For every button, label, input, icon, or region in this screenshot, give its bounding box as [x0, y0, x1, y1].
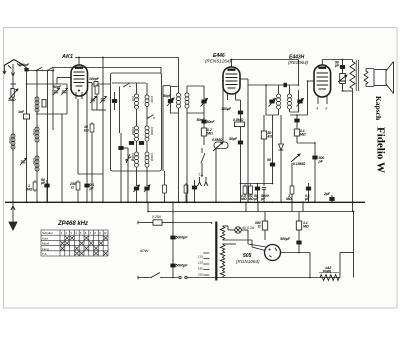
svg-text:MΩ: MΩ: [241, 197, 247, 201]
svg-text:MΩ: MΩ: [248, 197, 254, 201]
anode RC: var resistor box 50k: [342, 69, 344, 74]
svg-text:0.5MΩ: 0.5MΩ: [233, 118, 244, 122]
svg-text:MΩ: MΩ: [303, 225, 309, 229]
coil on x37 top: [35, 97, 39, 112]
wire y=85 to IF2: [248, 84, 266, 86]
vertical x=78 mid: [77, 99, 79, 174]
OT core: [355, 60, 357, 91]
wire y=114: [37, 113, 67, 115]
svg-text:0.0032: 0.0032: [150, 127, 154, 135]
svg-text:MΩ: MΩ: [207, 132, 213, 136]
IF2 left bracket: [266, 85, 279, 115]
series cap black on x26.5: [24, 68, 28, 72]
volume pot 0.5M: [214, 142, 228, 149]
coil column x=136.5 upper: [136, 83, 138, 94]
svg-text:5000pF: 5000pF: [176, 236, 189, 240]
box inner top wire: [112, 82, 146, 84]
svg-text:0.010: 0.010: [32, 129, 36, 136]
E446 grid wire left down to pot: [222, 81, 224, 143]
svg-text:0.25A: 0.25A: [152, 215, 162, 219]
E446 top cap lead: [231, 60, 233, 68]
svg-text:T.A.: T.A.: [42, 252, 47, 256]
resistor on x=97: [95, 84, 99, 96]
step wire 78->103: [78, 173, 103, 175]
svg-text:Kurz: Kurz: [42, 236, 49, 240]
speaker cone: [386, 62, 394, 94]
svg-text:0.0032: 0.0032: [150, 153, 154, 161]
IF2 right trimmer: [298, 100, 302, 103]
TA terminals: [198, 177, 209, 186]
vertical x=47.5 switch pole: [47, 71, 49, 203]
trimmer on x26.5: [20, 158, 27, 165]
tone var resistor: [291, 154, 300, 162]
IF1 right trimmer: [202, 100, 206, 103]
resistor 0.5M horizontal: [235, 122, 245, 127]
svg-text:AK1: AK1: [61, 54, 73, 60]
svg-text:60W: 60W: [140, 248, 149, 253]
resistor x=186 at 185: [184, 183, 188, 195]
svg-text:100µF: 100µF: [221, 107, 232, 111]
speaker box: [374, 70, 386, 86]
antenna input arrow on x=13: [11, 72, 14, 76]
svg-text:1nF: 1nF: [18, 110, 25, 114]
feed vertical x=173: [172, 202, 174, 277]
primary taps: [203, 253, 209, 275]
coil column x=147 upper: [146, 83, 148, 95]
bus B to IF2: [232, 59, 299, 61]
svg-text:MΩ: MΩ: [300, 133, 306, 137]
svg-text:MΩ: MΩ: [286, 197, 292, 201]
coil column x=136.5 low: [135, 152, 139, 167]
ground symbol: [12, 202, 14, 222]
bottom line with switch: [138, 276, 142, 279]
coil on x37 upper: [35, 127, 39, 142]
output transformer primary zigzag: [350, 60, 355, 91]
coil on x37 lower: [35, 156, 39, 171]
svg-text:220: 220: [198, 273, 203, 277]
svg-text:0.0008: 0.0008: [131, 153, 135, 161]
field coil drop: [352, 91, 354, 212]
IF2 top wire with cap: [266, 84, 299, 86]
IF1 right bracket: [187, 86, 204, 113]
svg-text:MΩ: MΩ: [27, 188, 33, 192]
tube AK1 envelope: [71, 65, 88, 96]
vertical x=67: [66, 84, 68, 114]
vertical x=37: [36, 71, 38, 203]
heater resistor zigzag: [320, 275, 339, 281]
trimmer pair at 93,99: [90, 96, 97, 103]
resistor 350: [264, 212, 266, 222]
svg-text:(RENS1264): (RENS1264): [205, 59, 232, 64]
heater return: [223, 239, 253, 241]
svg-text:4V 0.2A: 4V 0.2A: [242, 226, 255, 230]
coil column x=147 mid: [145, 126, 149, 141]
vertical x=103: [102, 58, 104, 175]
x353 down: [353, 212, 355, 278]
IF2 left trimmer: [270, 100, 274, 103]
cap 5000 below IF1 right: [203, 113, 205, 120]
resistor right: [298, 212, 300, 222]
vertical x=86: [86, 92, 88, 178]
wire y=84 from 26.5 to 67: [27, 83, 68, 85]
TA switch chain: [201, 148, 203, 153]
wire x=26.5 column: [26, 72, 28, 203]
cap 5000 upper: [171, 236, 175, 239]
transformer core bar: [215, 222, 217, 281]
svg-text:50nF: 50nF: [207, 120, 216, 124]
svg-text:(RES964): (RES964): [288, 60, 309, 65]
svg-text:125: 125: [198, 261, 203, 265]
anode wire: [240, 78, 248, 80]
antenna: [4, 60, 24, 66]
svg-text:T.A.: T.A.: [198, 173, 204, 177]
vertical x=53: [52, 71, 54, 131]
secondary HV winding: [220, 244, 224, 277]
cap 5000 lower: [171, 264, 175, 267]
bus drops 202->211: [147, 202, 149, 211]
svg-text:pF: pF: [318, 160, 324, 164]
svg-text:k: k: [326, 107, 328, 111]
mains plug prongs: [138, 221, 142, 224]
pilot lamp: [235, 227, 241, 233]
anode RC: cap: [342, 60, 344, 66]
svg-text:kΩ: kΩ: [84, 129, 89, 133]
svg-text:µF: µF: [253, 197, 259, 201]
pot left leg down: [215, 149, 217, 203]
IF2 left winding: [278, 85, 280, 94]
cap 100uF black: [238, 111, 242, 114]
switch in box top: [123, 83, 130, 87]
switch low box: [125, 157, 132, 161]
svg-text:Mittel: Mittel: [42, 242, 50, 246]
E443H internals: [318, 67, 326, 69]
svg-text:0.030: 0.030: [8, 137, 12, 144]
svg-text:50nF: 50nF: [197, 118, 206, 122]
vertical x=128 below box: [127, 148, 129, 202]
E443H top cap lead: [321, 60, 323, 66]
grid lead: [308, 80, 314, 82]
svg-text:Fidelio W: Fidelio W: [375, 127, 387, 173]
wire from AK1 to grid circuit: [57, 77, 71, 79]
vertical x=119.5: [119, 87, 121, 134]
fuse 0.25A: [142, 222, 153, 224]
AK1 internals: [75, 67, 83, 69]
black cap x=87: [85, 184, 89, 187]
svg-text:50: 50: [267, 158, 271, 162]
svg-text:2µF: 2µF: [323, 192, 331, 196]
svg-text:Ω: Ω: [257, 225, 261, 229]
AK1 top cap lead: [78, 58, 80, 66]
svg-text:500pF: 500pF: [19, 63, 30, 67]
IF1 left trimmer: [168, 100, 172, 103]
svg-text:0.15MΩ: 0.15MΩ: [293, 162, 305, 166]
svg-text:pF: pF: [260, 197, 266, 201]
output filter loop: [309, 253, 311, 278]
svg-text:µF: µF: [89, 187, 95, 191]
svg-text:110: 110: [198, 255, 203, 259]
coil on x13: [11, 134, 15, 149]
svg-text:150: 150: [198, 267, 203, 271]
resistor 0.2M below: [203, 123, 205, 128]
svg-text:(RGN1064): (RGN1064): [236, 259, 260, 264]
rectifier 505: [247, 230, 249, 244]
switch at 127,158: [126, 154, 130, 163]
wire top feed y=67.5: [53, 67, 161, 69]
resistor x=164 at 185: [163, 183, 167, 195]
tube E446 envelope: [223, 67, 240, 94]
black cap at 121,148 wire right: [119, 147, 123, 150]
IF1 right winding: [186, 86, 188, 93]
svg-text:FWB: FWB: [323, 270, 331, 274]
svg-text:50µF: 50µF: [229, 137, 238, 141]
coil column x=136.5 mid: [135, 126, 139, 141]
svg-text:0.002: 0.002: [32, 158, 36, 165]
trimmer caps under box: [134, 187, 138, 190]
switch mid box: [147, 115, 154, 119]
detector branch: [280, 115, 282, 144]
grid RC chain: [290, 114, 308, 116]
wire y=110: [92, 109, 106, 111]
wire y=84 right of tube: [88, 82, 93, 84]
svg-text:µF: µF: [334, 64, 340, 68]
top bus corner into IF1: [178, 58, 180, 94]
svg-text:µF: µF: [304, 197, 310, 201]
svg-text:50kΩ: 50kΩ: [340, 79, 346, 83]
cap 50uF black: [238, 141, 242, 144]
2uF cap on bus: [331, 195, 333, 198]
switch row y=70.5: [28, 70, 53, 72]
AK1 bottom leads: [75, 92, 77, 99]
AVC resistor 50k: [263, 115, 265, 131]
svg-text:0.02: 0.02: [131, 96, 135, 102]
resistor 10k at 92,124: [90, 122, 94, 134]
variable resistor on x13: [11, 89, 14, 98]
svg-text:5000pF: 5000pF: [176, 264, 189, 268]
coil column x=147 low: [145, 152, 149, 167]
secondary heater winding: [220, 226, 224, 240]
E446 legs: [227, 94, 229, 101]
IF1 top feed wire: [163, 85, 171, 87]
resistor 250 Ohm x=78: [76, 180, 80, 192]
bottom row: resistor 1MOhm x=35: [33, 180, 37, 192]
trimmer black caps mid: [129, 142, 133, 145]
svg-text:Lang: Lang: [42, 247, 49, 251]
IF2 right bracket: [290, 90, 299, 112]
svg-text:1MΩ: 1MΩ: [8, 98, 16, 102]
top AVC bus: [75, 57, 179, 59]
IF1 left winding: [177, 93, 181, 108]
svg-text:0.5MΩ: 0.5MΩ: [212, 138, 223, 142]
wire fuse to transformer: [173, 222, 212, 224]
svg-text:Kapsch: Kapsch: [374, 96, 383, 121]
svg-text:0.010: 0.010: [150, 96, 154, 103]
svg-text:k: k: [317, 107, 319, 111]
component row above bus: [241, 183, 273, 185]
HV stub: [223, 243, 237, 245]
secondary bus: [148, 211, 354, 213]
rectifier output wire: [281, 252, 311, 254]
vertical x=92: [91, 84, 93, 110]
resistor horizontal at 43,102: [42, 100, 46, 108]
vertical x=121 below box: [120, 133, 122, 202]
svg-text:ZP468 kHz: ZP468 kHz: [57, 221, 88, 227]
IF1 left bracket: [171, 87, 179, 114]
tube E443H envelope: [314, 65, 331, 97]
ground bus: [5, 201, 365, 203]
diode: [279, 144, 284, 150]
bottom bus right: [212, 277, 340, 279]
series cap 100pF at 96,84: [94, 82, 98, 87]
cathode column x=240.5: [236, 99, 241, 101]
shield box: [111, 73, 162, 171]
secondary top to pilot lamp: [223, 225, 229, 227]
E446 internals: [228, 69, 236, 71]
anode top wire to OT: [322, 59, 352, 61]
black cap x=194: [192, 186, 196, 189]
switch table frame: [41, 230, 108, 256]
svg-text:Ω: Ω: [70, 186, 74, 190]
black cap x=47: [45, 184, 49, 187]
IF2 right winding: [289, 85, 291, 94]
cap 1nF on x26.5: [24, 114, 30, 119]
cap 50 black on x272.5: [272, 115, 274, 163]
OT secondary loop: [366, 69, 374, 87]
E443H legs k k: [317, 96, 319, 104]
trimmer cap black at 114,101: [112, 100, 116, 103]
electrolytic caps: [297, 241, 301, 244]
svg-text:50pF: 50pF: [163, 94, 172, 98]
vertical x=62 lower: [61, 114, 63, 202]
svg-text:500µF: 500µF: [280, 237, 291, 241]
svg-text:kΩ: kΩ: [268, 135, 273, 139]
voice coil zigzag: [364, 69, 368, 87]
svg-text:0.0008: 0.0008: [131, 127, 135, 135]
svg-text:Schalter: Schalter: [42, 231, 53, 235]
svg-text:100pF: 100pF: [89, 77, 100, 81]
trimmer pair at 56,92: [53, 88, 60, 95]
tick at x13: [11, 83, 17, 85]
svg-text:µF: µF: [40, 181, 46, 185]
svg-text:50pF: 50pF: [53, 85, 62, 89]
table X marks: [60, 236, 107, 255]
transformer primary zigzag: [211, 223, 214, 225]
wire antenna to cap: [24, 66, 27, 68]
